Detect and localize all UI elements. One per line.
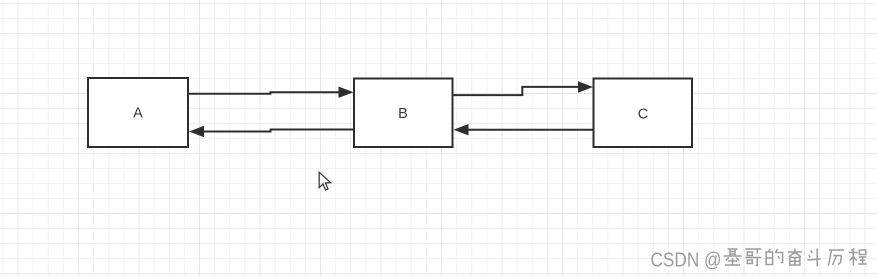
svg-text:B: B (398, 106, 408, 122)
glyph ji (base) (724, 249, 743, 266)
svg-text:C: C (638, 107, 648, 123)
wire arrow B to C (453, 81, 594, 95)
mouse cursor (319, 172, 330, 190)
wire arrow A to B (189, 87, 354, 98)
glyph cheng (journey) (849, 249, 868, 267)
glyph dou (fight) (807, 249, 822, 268)
box B (354, 79, 453, 148)
watermark chinese glyphs (724, 249, 868, 268)
wire arrow C to B (454, 124, 593, 135)
svg-text:CSDN @: CSDN @ (651, 250, 722, 272)
glyph ge (older brother) (745, 249, 762, 267)
svg-text:A: A (133, 106, 143, 122)
watermark CSDN text (651, 250, 723, 273)
box C (594, 79, 693, 148)
box A (88, 78, 188, 147)
wire arrow B to A (189, 126, 353, 137)
glyph li (experience) (829, 250, 846, 267)
glyph de (of) (766, 249, 784, 266)
glyph fen (strive) (788, 249, 803, 267)
